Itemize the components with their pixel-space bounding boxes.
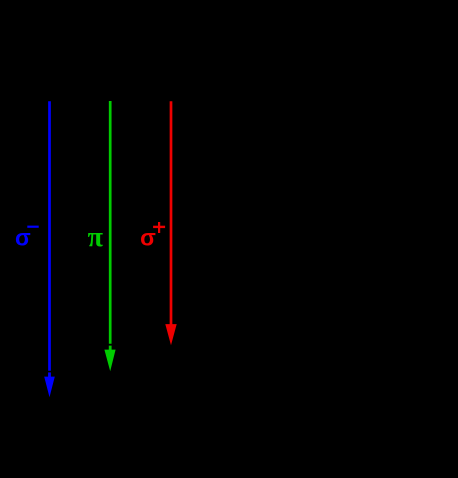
svg-text:π: π [88,222,104,253]
arrow pi (green transition arrow) [104,101,115,371]
label sigma-plus [140,222,165,251]
svg-text:σ: σ [140,225,156,251]
arrow sigma-minus (blue transition arrow) [44,101,55,397]
blue arrowhead [44,377,55,398]
arrow sigma-plus (red transition arrow) [165,101,176,345]
red arrowhead [165,324,176,345]
blue arrowhead stem [48,372,51,377]
green arrowhead stem [109,346,112,351]
wire: red arrow shaft [170,101,173,326]
wire: blue arrow shaft [48,101,51,371]
green arrowhead [104,350,115,372]
wire: green arrow shaft [109,101,112,344]
label pi [88,222,104,253]
label sigma-minus [15,225,39,251]
svg-text:σ: σ [15,225,31,251]
